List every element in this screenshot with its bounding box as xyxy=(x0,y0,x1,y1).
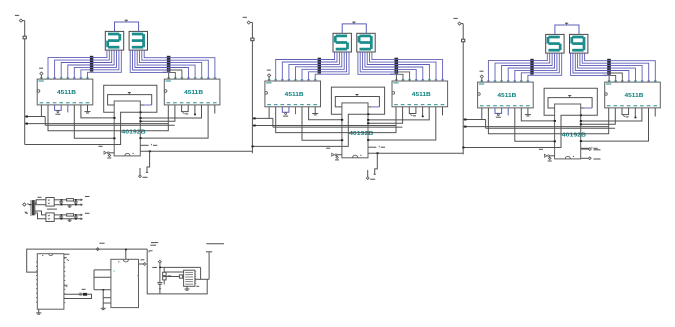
U1C reset wire over chip xyxy=(25,112,141,144)
display common wire block2 xyxy=(342,22,366,33)
resistor R10 xyxy=(163,267,172,284)
input connector block3 xyxy=(453,18,463,25)
U3B pin-name marks xyxy=(606,81,657,106)
input connector J2 xyxy=(152,260,161,267)
7-seg display DS2A xyxy=(333,33,351,52)
wire top to comparator xyxy=(147,249,207,294)
U3C carry loop inner xyxy=(548,96,592,108)
display common wire block1 xyxy=(115,20,139,31)
U3A ground xyxy=(525,108,531,116)
decoder U1B 4511B (units) xyxy=(164,79,220,105)
U1B label 4511B xyxy=(184,90,203,96)
input connector block1 xyxy=(15,15,25,22)
U2B wire C input xyxy=(367,107,436,141)
U3B pin1 top stub xyxy=(603,70,609,83)
label between bridges xyxy=(47,208,57,210)
segment wires DS2A to U2A xyxy=(276,52,349,81)
wire tap upper xyxy=(25,116,46,118)
bridge rectifier D1 xyxy=(46,198,54,207)
U1B strobe loop xyxy=(182,105,189,114)
U3A wire D input xyxy=(515,108,556,142)
U3A pin-name marks xyxy=(479,81,530,106)
U3A label 4511B xyxy=(497,93,516,99)
clock source symbol block2 xyxy=(366,170,375,180)
segment wires DS1A to U1A xyxy=(48,50,121,79)
wire vertical feed block1 xyxy=(24,21,26,145)
U2B pin1 top stub xyxy=(390,68,396,81)
U2B strobe loop xyxy=(409,107,416,116)
U3A wire C input xyxy=(521,108,556,122)
wire bundle marker right xyxy=(167,56,171,72)
U1A pin1 top connector xyxy=(39,68,43,79)
svg-text:4511B: 4511B xyxy=(285,92,304,98)
U1B wire C input xyxy=(139,105,208,139)
labels mid top xyxy=(151,242,158,244)
decoder U1A 4511B (tens) xyxy=(37,79,93,105)
connector square block2 xyxy=(251,38,254,41)
wire T1 sec2a xyxy=(35,211,46,215)
comparator feed marks xyxy=(149,245,156,252)
clock tap below U2C xyxy=(374,153,378,174)
ground arrow V1 xyxy=(24,212,28,214)
wire bundle marker left xyxy=(530,59,533,75)
digit 9 xyxy=(359,36,371,49)
U3C reset wire over chip xyxy=(463,115,581,147)
U2C borrow loop outer xyxy=(331,87,384,115)
digit 3 xyxy=(132,34,144,47)
input connector block2 xyxy=(243,17,253,24)
U3B wire B input xyxy=(580,108,642,122)
wire R10 to U12 xyxy=(164,271,183,273)
U3B strobe loop xyxy=(622,108,629,117)
digit 5 xyxy=(335,36,347,49)
U10 ground xyxy=(36,309,41,314)
digit 9 xyxy=(572,37,584,50)
U1A-U1B link wire xyxy=(48,105,168,131)
svg-text:4511B: 4511B xyxy=(625,93,644,99)
junction block3 feed xyxy=(462,147,464,149)
svg-text:4511B: 4511B xyxy=(57,90,76,96)
svg-text:4511B: 4511B xyxy=(412,92,431,98)
wire long B xyxy=(273,126,403,128)
U2A pin-name marks xyxy=(266,80,317,105)
U2B pin-name marks xyxy=(393,80,444,105)
U2A wire C input xyxy=(309,107,344,121)
wire tap upper xyxy=(252,117,273,119)
U2A label 4511B xyxy=(285,92,304,98)
terminal X3a xyxy=(581,148,601,151)
PSU rail upper +V xyxy=(54,197,89,208)
digit 5 xyxy=(548,37,560,50)
decoder U2B 4511B (units) xyxy=(392,81,448,107)
counter U3C 40192B xyxy=(555,104,581,159)
svg-text:4511B: 4511B xyxy=(184,90,203,96)
U3A pin1 top connector xyxy=(480,71,484,82)
U3B label 4511B xyxy=(625,93,644,99)
VCC T bar xyxy=(195,252,212,279)
U1B pin-name marks xyxy=(166,78,217,103)
junction block2 feed xyxy=(252,146,254,148)
7-seg display DS1A xyxy=(105,31,123,50)
U2A wire D input xyxy=(302,107,343,141)
U1A wire D input xyxy=(74,105,115,139)
wire bundle marker right xyxy=(395,58,399,74)
cascade rail block2 xyxy=(368,152,463,154)
digit 2 xyxy=(108,34,120,47)
U2C label 40192B xyxy=(349,131,374,137)
U2A blank stub xyxy=(295,107,297,115)
wire V1 to T1 xyxy=(28,204,31,206)
svg-text:40192B: 40192B xyxy=(349,131,374,137)
U3B stub pin xyxy=(635,108,637,118)
U2A ground xyxy=(312,107,318,115)
connector square block1 xyxy=(23,36,26,39)
U3C clock pin symbol xyxy=(539,149,555,161)
U1A lamp-test loop xyxy=(55,105,62,114)
U3A lamp-test loop xyxy=(495,108,502,117)
label top right xyxy=(206,243,224,245)
wire long B xyxy=(486,127,615,129)
U2C carry loop inner xyxy=(335,95,379,107)
U2B label 4511B xyxy=(412,92,431,98)
ladder ties U11 xyxy=(94,270,111,308)
U2C reset wire over chip xyxy=(252,114,368,146)
wire vertical feed block3 xyxy=(462,24,464,155)
AC source V1 xyxy=(23,203,32,206)
U1A blank stub xyxy=(67,105,69,113)
U10 pin tick xyxy=(64,285,67,288)
U2C clock pin symbol xyxy=(326,148,342,160)
counter U1C 40192B xyxy=(114,101,140,156)
U10 labels xyxy=(64,254,69,261)
U11 enable stub xyxy=(139,260,147,266)
U2A-U2B link wire xyxy=(276,107,396,133)
wire U10 top feedback xyxy=(27,249,148,272)
U1C clock pin symbol xyxy=(99,146,115,158)
wire bundle marker left xyxy=(318,58,321,74)
wire T1 sec1b xyxy=(35,204,46,206)
U1A wire C input xyxy=(81,105,116,119)
U2A pin1 top connector xyxy=(267,70,271,81)
decoder U3A 4511B (tens) xyxy=(478,82,534,108)
7-seg display DS1B xyxy=(129,31,147,50)
wire tap upper xyxy=(463,119,485,121)
clock tap below U1C xyxy=(146,151,150,172)
U3B stub pin 2 xyxy=(654,108,656,117)
decoder U3B 4511B (units) xyxy=(605,82,661,108)
U1C label 40192B xyxy=(121,129,146,135)
wire long A xyxy=(463,126,609,128)
bridge rectifier D2 xyxy=(46,213,54,222)
U3A pin wire to feed xyxy=(481,108,483,120)
U2B wire A input xyxy=(367,107,403,124)
U11 ground xyxy=(101,308,106,309)
capacitor C10 xyxy=(157,263,162,294)
U1C borrow loop outer xyxy=(104,85,157,113)
U1C carry-out stub xyxy=(140,144,157,145)
U3C carry-out stub xyxy=(581,147,598,148)
wire tap link xyxy=(44,117,46,126)
cap C11 xyxy=(166,275,184,278)
clock source symbol block1 xyxy=(139,168,148,178)
wire bus top xyxy=(159,267,200,280)
segment wires DS3B to U3B xyxy=(571,53,656,82)
segment wires DS3A to U3A xyxy=(488,53,561,82)
U2B stub pin xyxy=(422,107,424,117)
7-seg display DS3B xyxy=(570,34,588,53)
U2B stub pin 2 xyxy=(442,107,444,116)
U1A pin wire to feed xyxy=(40,105,42,117)
display common wire block3 xyxy=(555,23,579,34)
U1C carry loop inner xyxy=(108,93,152,105)
terminal X3b xyxy=(581,157,601,160)
U3A-U3B link wire xyxy=(488,108,608,134)
wire long A xyxy=(25,123,169,125)
U3A blank stub xyxy=(507,108,509,116)
connector square block3 xyxy=(462,39,465,42)
U3B wire A input xyxy=(580,108,616,125)
crystal Y1 xyxy=(64,289,92,298)
ic U12 crystal module xyxy=(184,270,197,286)
connector on feedback wire xyxy=(96,243,104,250)
oscillator chip U10 4060B xyxy=(36,254,65,310)
U3C label 40192B xyxy=(562,132,587,138)
divider chip U11 4017B xyxy=(111,259,139,307)
U1B wire A input xyxy=(139,105,175,122)
wire tap link xyxy=(272,118,274,127)
U3C borrow loop outer xyxy=(544,88,597,116)
U1B stub pin xyxy=(194,105,196,115)
wire bundle marker left xyxy=(90,56,93,72)
wire U11 clock from U10 xyxy=(125,249,127,260)
7-seg display DS2B xyxy=(357,33,375,52)
wire bundle marker right xyxy=(607,59,611,75)
U2C carry-out stub xyxy=(368,146,385,147)
wire T1 sec2b xyxy=(35,213,46,219)
U1B stub pin 2 xyxy=(214,105,216,114)
U2A lamp-test loop xyxy=(282,107,289,116)
segment wires DS1B to U1B xyxy=(130,50,215,79)
transformer T1 xyxy=(30,197,41,215)
wire long B xyxy=(45,124,175,126)
PSU rail lower +V xyxy=(54,213,89,221)
U3B wire C input xyxy=(580,108,649,142)
U1A pin-name marks xyxy=(39,78,90,103)
U2A pin wire to feed xyxy=(268,107,270,119)
U1B wire B input xyxy=(139,105,201,119)
segment wires DS2B to U2B xyxy=(358,52,443,81)
U1B pin1 top stub xyxy=(162,67,168,80)
cascade rail block1 xyxy=(140,150,252,152)
U12 ground xyxy=(185,286,200,290)
wire tap link xyxy=(485,120,487,129)
U1A ground xyxy=(85,105,91,113)
7-seg display DS3A xyxy=(546,34,564,53)
wire T1 sec1a xyxy=(35,200,46,204)
counter U2C 40192B xyxy=(342,103,368,158)
U1A label 4511B xyxy=(57,90,76,96)
svg-text:4511B: 4511B xyxy=(497,93,516,99)
decoder U2A 4511B (tens) xyxy=(265,81,321,107)
wire long A xyxy=(252,125,396,127)
U2B wire B input xyxy=(367,107,429,121)
wire vertical feed block2 xyxy=(251,23,253,154)
